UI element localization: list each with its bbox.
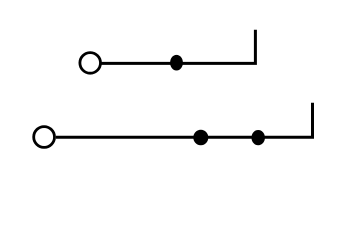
node (junction dot) 2 on bottom wire [251, 130, 265, 145]
terminal (open circle) bottom-left [34, 127, 55, 148]
terminal (open circle) top-left [80, 53, 101, 74]
node (junction dot) 1 on bottom wire [193, 130, 208, 146]
wire: bottom net horizontal + right vertical riser [56, 103, 313, 137]
node (junction dot) on top wire [170, 55, 183, 71]
wire: top net horizontal + right vertical riser [102, 30, 256, 64]
